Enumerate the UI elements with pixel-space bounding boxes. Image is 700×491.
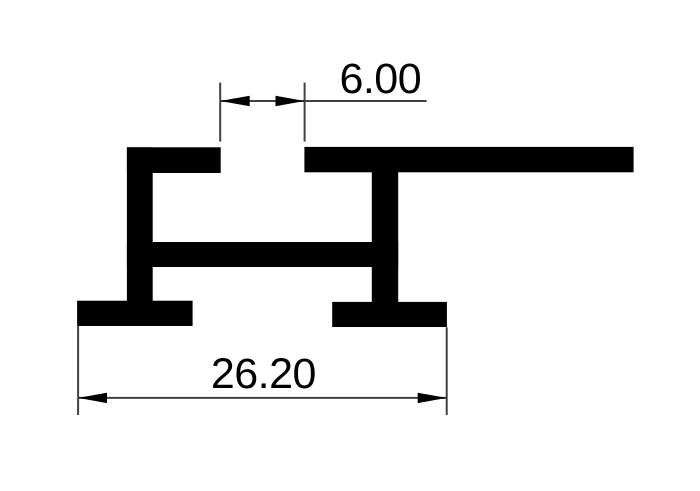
profile top-right long flange [304, 147, 633, 172]
profile middle vertical wall [372, 172, 398, 327]
extension line right of 26.20 dimension [446, 327, 448, 415]
profile bottom-left foot [77, 301, 193, 326]
svg-text:26.20: 26.20 [211, 350, 316, 398]
dimension line 6.00 [220, 100, 426, 102]
svg-text:6.00: 6.00 [339, 55, 421, 103]
arrowhead right of 26.20 [418, 393, 447, 403]
arrowhead left of 26.20 [78, 393, 107, 403]
arrowhead left of 6.00 [220, 96, 250, 106]
profile middle horizontal web [127, 242, 398, 267]
extension line right of 6.00 dimension [304, 83, 306, 142]
profile top-left flange [127, 147, 221, 173]
extension line left of 26.20 dimension [77, 326, 79, 415]
extension line left of 6.00 dimension [219, 83, 221, 142]
profile left vertical wall [127, 147, 153, 326]
arrowhead right of 6.00 [276, 96, 305, 106]
profile bottom-right foot [332, 302, 447, 327]
dimension line 26.20 [78, 397, 447, 399]
